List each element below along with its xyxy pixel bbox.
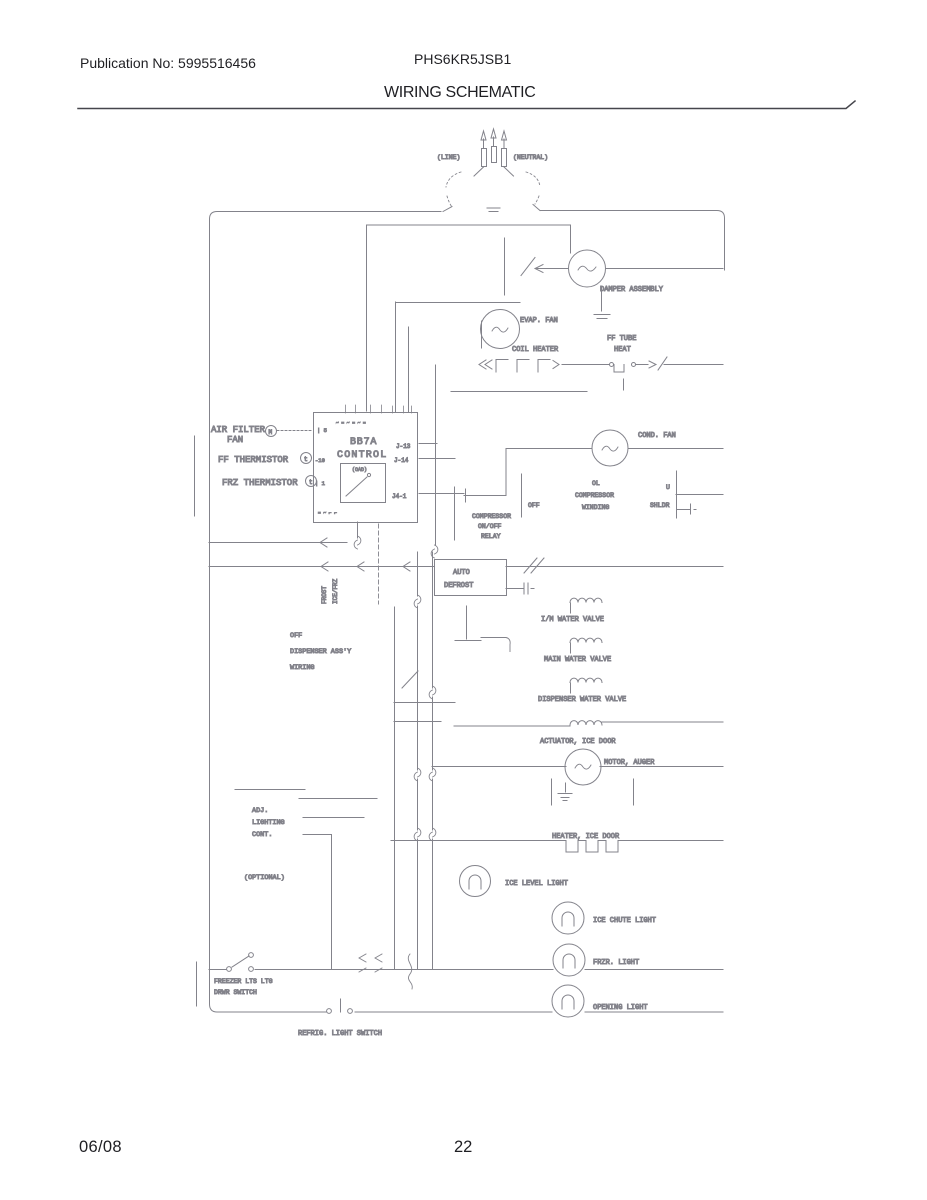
refrig switch bar	[340, 999, 342, 1012]
svg-text:ON/OFF: ON/OFF	[478, 523, 502, 530]
wire y721 stub	[394, 721, 441, 723]
bus curl x410	[408, 954, 412, 989]
relay feed vertical	[454, 487, 456, 540]
defrost thermostat left terminal	[610, 363, 614, 367]
svg-text:OPENING LIGHT: OPENING LIGHT	[593, 1004, 648, 1012]
damper ground drop	[601, 288, 603, 312]
svg-text:WIRING: WIRING	[290, 664, 314, 672]
actuator feed wire	[454, 725, 570, 727]
adj lighting corner wire	[303, 835, 332, 970]
svg-text:t: t	[304, 456, 308, 463]
frz thermistor circle	[306, 476, 317, 487]
coil heater element 3	[538, 360, 550, 373]
wire J-13	[419, 443, 437, 445]
header publication number	[80, 55, 256, 71]
svg-text:OFF: OFF	[290, 632, 302, 640]
defrost thermostat wire	[562, 364, 609, 366]
refrig switch contact left	[327, 1009, 332, 1014]
freezer switch pole	[227, 967, 232, 972]
evap fan motor circle	[481, 310, 520, 349]
svg-text:I/M WATER VALVE: I/M WATER VALVE	[541, 616, 604, 624]
svg-text:FF THERMISTOR: FF THERMISTOR	[218, 455, 289, 465]
wire from line prong	[474, 167, 484, 176]
ice level light lamp glyph	[469, 875, 481, 889]
damper motor inner mark	[578, 266, 596, 271]
bus x394	[394, 607, 396, 969]
wire y391	[451, 391, 587, 393]
outer cabinet rectangle top-left and left edge and bottom edge	[210, 212, 442, 1013]
compressor relay bar	[521, 474, 523, 517]
left margin tick	[194, 436, 196, 516]
damper assembly motor circle	[569, 250, 606, 287]
wire J-14	[419, 458, 455, 460]
svg-text:DRWR SWITCH: DRWR SWITCH	[214, 989, 257, 996]
footer page number	[454, 1138, 472, 1157]
wire J4-1	[419, 493, 464, 495]
svg-text:t: t	[309, 479, 313, 486]
svg-text:ICE/FRZ: ICE/FRZ	[332, 578, 339, 604]
svg-text:-10: -10	[315, 457, 325, 464]
relay sub box blade	[346, 477, 367, 496]
svg-text:COMPRESSOR: COMPRESSOR	[575, 492, 614, 499]
title rule	[78, 101, 855, 109]
wire drop to damper	[570, 225, 572, 253]
svg-text:LIGHTING: LIGHTING	[252, 819, 285, 827]
s-break on stub	[354, 536, 361, 549]
wire damper to right bus	[606, 268, 723, 270]
wire stub x504	[504, 238, 506, 295]
freezer switch contact down	[249, 967, 254, 972]
freezer switch wire	[209, 969, 226, 971]
title WIRING SCHEMATIC	[384, 84, 535, 102]
svg-text:COIL HEATER: COIL HEATER	[512, 346, 559, 354]
chevron after heater	[553, 361, 559, 369]
power plug prong center with arrow	[491, 129, 497, 163]
svg-text:J-14: J-14	[394, 457, 409, 464]
frz light wire	[255, 969, 723, 971]
frz light lamp glyph	[563, 954, 575, 968]
auger motor inner mark	[575, 764, 591, 769]
inner loop left edge	[366, 225, 368, 411]
svg-text:COND. FAN: COND. FAN	[638, 432, 676, 440]
bus x432	[432, 552, 434, 969]
svg-text:(OPTIONAL): (OPTIONAL)	[244, 874, 285, 882]
auger ground drop	[565, 783, 567, 792]
main water valve lead	[570, 643, 572, 653]
adj lighting wire 3	[303, 817, 364, 819]
svg-text:FRZR. LIGHT: FRZR. LIGHT	[593, 959, 639, 967]
auger wire to right bus	[600, 766, 723, 768]
svg-text:FRZ THERMISTOR: FRZ THERMISTOR	[222, 478, 298, 488]
dispenser T wire	[455, 638, 506, 641]
auger motor circle	[565, 749, 601, 785]
im water valve lead	[570, 603, 572, 613]
svg-text:¦ 5: ¦ 5	[317, 427, 327, 434]
plug body dotted outline left	[446, 172, 461, 207]
svg-text:BB7A: BB7A	[350, 437, 377, 448]
s-break bus x435 top	[431, 545, 438, 558]
svg-text:FREEZER LTS LTG: FREEZER LTS LTG	[214, 978, 273, 985]
bus stub from box bottom	[357, 522, 359, 538]
svg-text:AIR FILTER: AIR FILTER	[211, 425, 266, 435]
ice chute light lamp glyph	[562, 912, 574, 926]
control board box	[314, 413, 418, 523]
thermostat lower tick	[623, 379, 625, 390]
opening light circle	[552, 985, 584, 1017]
dispenser water valve coil	[570, 678, 602, 682]
relay sub box	[341, 464, 386, 503]
switch arrowhead	[649, 361, 656, 368]
chevron on y542	[320, 538, 327, 547]
svg-text:M: M	[269, 429, 273, 436]
opening light lamp glyph	[562, 995, 574, 1009]
dispenser switch blade	[402, 671, 418, 688]
auger capacitor bar right	[633, 779, 635, 805]
cord lead-in right	[533, 205, 540, 211]
wire from neutral prong	[504, 167, 514, 176]
coil heater chevrons	[479, 360, 492, 369]
svg-text:RELAY: RELAY	[481, 533, 501, 540]
control box top pin ticks	[346, 405, 412, 413]
svg-text:(OAD): (OAD)	[352, 467, 367, 473]
svg-text:ACTUATOR, ICE DOOR: ACTUATOR, ICE DOOR	[540, 738, 616, 746]
ground mark under plug	[487, 208, 500, 212]
svg-text:CONTROL: CONTROL	[337, 450, 387, 461]
svg-text:DISPENSER WATER VALVE: DISPENSER WATER VALVE	[538, 696, 626, 704]
im water valve coil	[570, 598, 602, 602]
freezer switch blade	[232, 956, 249, 967]
wire cond fan to right bus	[628, 448, 723, 450]
ptc starter bar	[676, 471, 678, 518]
wire to right bus y364	[664, 364, 723, 366]
auger motor feed wire	[432, 766, 566, 768]
s-breaks bus x432	[429, 686, 436, 841]
wire y566 to defrost box	[209, 566, 434, 568]
outer cabinet rectangle top-right segment	[540, 211, 725, 271]
power plug prong N with arrow	[502, 131, 507, 167]
break blades on y566	[524, 558, 544, 573]
air filter dashed wire	[277, 430, 313, 432]
svg-text:CONT.: CONT.	[252, 831, 272, 839]
ice level light circle	[460, 866, 491, 897]
inner loop top edge	[367, 224, 571, 226]
s-break bus x417	[414, 595, 421, 608]
frz light circle	[553, 944, 585, 976]
heater ice door wire with element	[391, 841, 723, 853]
damper ground symbol	[594, 315, 610, 319]
wire ptc to right bus	[676, 494, 723, 496]
cond fan inner mark	[602, 446, 618, 451]
power plug prong L with arrow	[481, 131, 487, 167]
main water valve coil	[570, 638, 602, 642]
svg-text:J4-1: J4-1	[392, 493, 407, 500]
cond fan motor circle	[592, 430, 628, 466]
defrost capacitor wire	[506, 588, 524, 590]
svg-text:~ = ~ = ~ =: ~ = ~ = ~ =	[336, 421, 366, 426]
bus right of box x435	[435, 365, 437, 545]
evap fan feed wire	[396, 302, 521, 304]
defrost capacitor	[524, 583, 534, 594]
svg-text:ADJ.: ADJ.	[252, 807, 268, 815]
svg-text:HEAT: HEAT	[614, 346, 631, 354]
run capacitor symbol	[677, 504, 696, 514]
bus x417 upper	[417, 552, 419, 596]
chevrons at bus bottoms	[359, 954, 382, 972]
evap fan terminal bar	[481, 321, 483, 348]
svg-text:SHLDR: SHLDR	[650, 502, 670, 509]
bus x417 lower	[417, 606, 419, 969]
damper switch blade	[521, 258, 535, 276]
svg-text:ICE CHUTE LIGHT: ICE CHUTE LIGHT	[593, 917, 656, 925]
wire y542	[209, 542, 347, 544]
damper switch arrow	[535, 265, 568, 273]
svg-text:DEFROST: DEFROST	[444, 582, 473, 590]
dispenser water valve lead	[570, 683, 572, 693]
ice chute light circle	[552, 902, 584, 934]
svg-text:OFF: OFF	[528, 502, 540, 509]
footer date	[79, 1138, 122, 1157]
wire y702	[394, 702, 455, 704]
cord lead-in left	[443, 207, 452, 212]
auger capacitor bar left	[551, 779, 553, 805]
auto defrost box	[435, 560, 507, 596]
plug body dotted outline right	[526, 172, 540, 204]
door tick outside	[196, 962, 198, 1006]
svg-text:DAMPER ASSEMBLY: DAMPER ASSEMBLY	[600, 286, 664, 294]
dashed bus x378	[378, 524, 380, 604]
svg-text:ICE LEVEL LIGHT: ICE LEVEL LIGHT	[505, 880, 568, 888]
defrost thermostat body	[614, 365, 624, 373]
relay pin tick	[465, 489, 467, 502]
evap fan inner mark	[492, 327, 508, 332]
actuator wire to right bus	[602, 721, 723, 723]
actuator ice door coil	[570, 721, 602, 725]
adj lighting wire 2	[299, 798, 377, 800]
svg-text:FF TUBE: FF TUBE	[607, 335, 636, 343]
auger ground symbol	[558, 794, 572, 801]
wire to switch arrow	[636, 364, 648, 366]
refrig switch contact right	[348, 1009, 353, 1014]
switch blade	[658, 357, 667, 370]
dispenser hook	[506, 638, 510, 652]
relay sub box contact	[367, 473, 370, 476]
dispenser drop wire	[466, 606, 468, 639]
svg-text:MAIN WATER VALVE: MAIN WATER VALVE	[544, 656, 611, 664]
svg-text:DISPENSER ASS'Y: DISPENSER ASS'Y	[290, 648, 351, 656]
chevrons on y566	[321, 562, 410, 571]
s-breaks bus x417 lower	[414, 768, 421, 841]
svg-text:FROST: FROST	[321, 586, 328, 604]
svg-text:HEATER, ICE DOOR: HEATER, ICE DOOR	[552, 833, 620, 841]
wire into box top x395	[395, 302, 397, 412]
refrig switch wire resume	[355, 1011, 723, 1013]
wire defrost to right bus	[506, 566, 723, 568]
coil heater element 2	[517, 360, 529, 373]
ff thermistor circle	[301, 453, 312, 464]
svg-text:(LINE): (LINE)	[437, 154, 460, 161]
wire into box top x408	[408, 327, 410, 412]
svg-text:FAN: FAN	[227, 435, 243, 445]
freezer switch contact up	[249, 953, 254, 958]
svg-text:COMPRESSOR: COMPRESSOR	[472, 513, 511, 520]
svg-text:= ~ ⌐ ⌐: = ~ ⌐ ⌐	[318, 511, 337, 516]
svg-text:EVAP. FAN: EVAP. FAN	[520, 317, 558, 325]
header model number	[414, 51, 511, 67]
coil heater element 1	[496, 360, 508, 373]
svg-text:REFRIG. LIGHT SWITCH: REFRIG. LIGHT SWITCH	[298, 1030, 382, 1038]
adj lighting wire 1	[235, 789, 305, 791]
svg-text:U: U	[666, 484, 670, 491]
svg-text:MOTOR, AUGER: MOTOR, AUGER	[604, 759, 655, 767]
wire cond fan left with corner	[464, 449, 592, 496]
svg-text:WINDING: WINDING	[582, 504, 609, 511]
svg-text:J-13: J-13	[396, 443, 411, 450]
air filter fan motor circle	[266, 426, 277, 437]
svg-text:(NEUTRAL): (NEUTRAL)	[513, 154, 548, 161]
svg-text:OL: OL	[592, 480, 600, 487]
svg-text:AUTO: AUTO	[453, 569, 470, 577]
defrost thermostat right terminal	[632, 363, 636, 367]
